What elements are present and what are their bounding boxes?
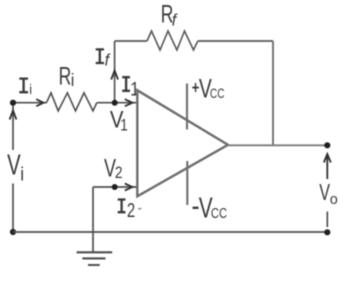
label If	[96, 49, 104, 63]
label V2	[104, 153, 116, 182]
node: output dot	[324, 142, 330, 148]
svg-text:i: i	[71, 70, 75, 90]
wire: feedback left vertical from node V1 up to top rail	[114, 41, 116, 103]
svg-text:CC: CC	[210, 85, 225, 101]
arrow Vi pointing up below input node	[10, 111, 17, 120]
svg-text:1: 1	[120, 116, 128, 135]
label I1	[122, 77, 130, 91]
label Ri	[59, 62, 72, 91]
svg-text:2: 2	[115, 164, 123, 183]
node: input node dot	[10, 100, 16, 106]
wire: feedback right vertical down to output line	[272, 41, 274, 145]
wire: left vertical Vi branch with gap for label	[12, 103, 14, 232]
arrow Vo pointing up below output node	[324, 154, 331, 179]
resistor Rf	[147, 31, 198, 50]
label +Vcc	[192, 78, 200, 98]
svg-text:o: o	[330, 192, 338, 208]
node V1 dot	[112, 100, 118, 106]
svg-text:i: i	[20, 164, 24, 185]
wire: output from op-amp to Vo node	[228, 144, 327, 146]
wire: top rail segments around Rf	[115, 40, 273, 42]
svg-text:i: i	[29, 81, 32, 97]
label Ii	[19, 79, 28, 93]
label Rf	[161, 0, 174, 28]
wire: short segment below Vo label	[326, 212, 328, 228]
faint dash after I2	[138, 208, 142, 210]
svg-text:+: +	[192, 78, 200, 98]
svg-text:2: 2	[127, 199, 135, 222]
label -Vcc	[193, 207, 199, 209]
svg-text:CC: CC	[211, 205, 228, 222]
wire: +Vcc supply line	[186, 84, 188, 130]
arrow Ii on input wire	[36, 99, 43, 106]
node: bottom-right dot	[324, 229, 330, 235]
arrow If pointing up on feedback vertical	[111, 71, 118, 80]
wire: bottom ground rail	[13, 231, 327, 233]
ground	[77, 252, 113, 265]
arrow I1 into inverting input	[125, 99, 133, 106]
node: bottom-left dot	[10, 229, 16, 235]
wire: V2 vertical down through ground rail to ground stem	[92, 187, 94, 252]
arrow I2 into non-inverting input	[125, 184, 133, 191]
svg-text:V: V	[7, 149, 21, 181]
wire: V2 horizontal into non-inverting input	[93, 186, 137, 188]
label V1	[110, 106, 124, 133]
svg-text:R: R	[59, 62, 72, 91]
node V2 dot	[112, 184, 118, 190]
wire: -Vcc supply line	[186, 161, 188, 205]
op-amp U1 triangle	[137, 90, 228, 196]
label I2	[118, 200, 126, 213]
wire: input horizontal from Vi node to resistor and on to op-amp inverting input	[13, 102, 137, 104]
label Vo	[319, 180, 330, 205]
resistor Ri	[47, 93, 97, 111]
label Vi	[7, 149, 21, 181]
